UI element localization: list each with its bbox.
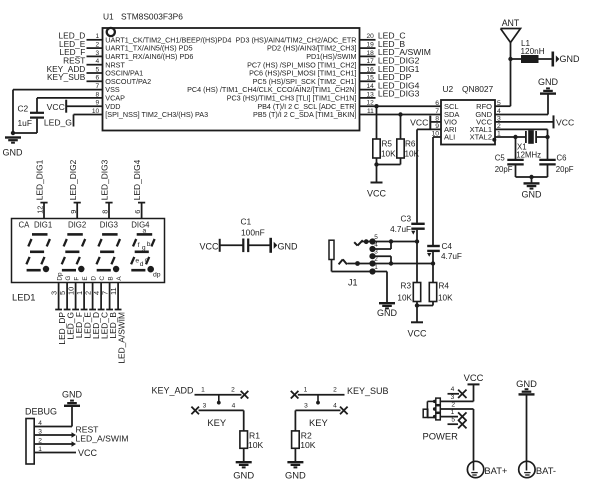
resistor R6 10K pull on SDA xyxy=(397,115,420,159)
svg-text:VCC: VCC xyxy=(407,328,427,338)
connector DEBUG body xyxy=(25,406,57,464)
junction SCL to R5 xyxy=(374,104,378,108)
svg-text:7: 7 xyxy=(435,108,439,115)
LED1 reference designator xyxy=(12,292,35,303)
U1 left pin names (pins 1-10) xyxy=(105,35,231,119)
IC U1 body (STM8S003F3P6, 20-pin) xyxy=(103,28,360,131)
resistor R2 10K xyxy=(292,431,316,450)
svg-text:D: D xyxy=(91,276,98,281)
display LED1 body xyxy=(12,219,165,283)
svg-text:4: 4 xyxy=(451,386,455,393)
svg-text:10K: 10K xyxy=(300,440,316,450)
net label KEY_SUB with wire stub to U1 pin 6 xyxy=(47,72,102,82)
capacitor C5 20pF xyxy=(495,137,524,177)
svg-text:B: B xyxy=(108,276,115,280)
svg-text:4.7uF: 4.7uF xyxy=(441,252,462,261)
connector POWER body xyxy=(423,398,440,420)
svg-text:LED_DIG3: LED_DIG3 xyxy=(378,89,420,99)
LED1 bottom pin 7 stub with net label LED_B xyxy=(101,283,118,339)
junction at VSS ground node xyxy=(11,131,15,135)
svg-text:CA: CA xyxy=(19,220,31,229)
svg-text:G: G xyxy=(65,276,72,281)
resistor R1 10K xyxy=(240,431,264,450)
svg-text:F: F xyxy=(74,277,81,281)
LED1 digit 1 seven-segment glyph xyxy=(26,234,50,272)
wire U2 pin10 ALI to C4 xyxy=(433,137,441,245)
svg-text:GND: GND xyxy=(278,241,299,251)
LED1 digit 3 seven-segment glyph xyxy=(97,234,121,272)
ground symbol GND above BAT- xyxy=(516,378,537,394)
J1 sleeve switch lever xyxy=(339,259,347,264)
J1 tip switch lever xyxy=(354,239,368,245)
svg-text:QN8027: QN8027 xyxy=(462,84,494,94)
svg-text:10K: 10K xyxy=(397,294,412,303)
LED1 bottom pin 10 stub with net label LED_F xyxy=(67,283,84,339)
svg-text:2: 2 xyxy=(333,387,337,394)
svg-text:DIG4: DIG4 xyxy=(131,220,150,229)
svg-text:LED_A/SWIM: LED_A/SWIM xyxy=(116,312,126,364)
U2 reference designator and part number xyxy=(443,84,494,94)
ground symbol GND above U2 pin4 xyxy=(538,77,559,94)
svg-text:KEY: KEY xyxy=(309,417,329,428)
svg-text:4: 4 xyxy=(374,242,378,249)
J1 pin numbers 5,4,3,2,1 xyxy=(374,234,378,271)
svg-text:U2: U2 xyxy=(443,84,454,94)
capacitor C3 4.7uF (ARI coupling) xyxy=(390,215,425,242)
svg-text:VCC: VCC xyxy=(556,118,574,128)
GND power port right of L1 xyxy=(553,52,580,67)
DEBUG pin numbers 4,3,2,1 xyxy=(38,420,42,453)
svg-text:U1: U1 xyxy=(103,12,114,22)
LED1 top pin 12 stub with net label LED_DIG1 xyxy=(35,159,48,218)
ground symbol GND below R2 xyxy=(285,462,306,480)
svg-text:A: A xyxy=(116,276,123,281)
svg-text:[SPI_NSS] TIM2_CH3/(HS) PA3: [SPI_NSS] TIM2_CH3/(HS) PA3 xyxy=(105,110,208,119)
svg-text:R6: R6 xyxy=(405,140,416,149)
svg-text:12: 12 xyxy=(36,206,45,214)
wire U1 pin10 with net label LED_G xyxy=(44,115,103,128)
terminal BAT+ xyxy=(467,461,508,477)
VCC power port below R3 xyxy=(407,306,427,339)
svg-text:3: 3 xyxy=(203,402,207,409)
net label LED_DIG3 with wire stub to U1 pin 13 xyxy=(360,89,420,99)
VCC power port left of C1 xyxy=(200,239,243,252)
svg-text:C1: C1 xyxy=(241,217,252,227)
svg-text:6: 6 xyxy=(133,210,142,214)
J1 pin contact dots 5,4,3,2,1 xyxy=(369,238,375,274)
LED1 bottom pin 11 stub with net label LED_A/SWIM xyxy=(109,283,126,364)
antenna ANT xyxy=(501,18,521,106)
junction antenna / L1 node xyxy=(508,57,512,61)
svg-text:PB5 (T)/I 2 C_SDA [TIM1_BKIN]: PB5 (T)/I 2 C_SDA [TIM1_BKIN] xyxy=(253,110,356,119)
svg-text:1: 1 xyxy=(201,387,205,394)
svg-text:10K: 10K xyxy=(438,294,453,303)
POWER label xyxy=(423,431,459,442)
junction R5/R6 to VCC xyxy=(374,162,378,166)
svg-text:LED_DIG2: LED_DIG2 xyxy=(68,159,78,200)
svg-text:GND: GND xyxy=(62,389,83,399)
LED1 internal segment letters Dp G F E D C B A xyxy=(57,272,124,281)
wire J1 pin2 to C4 node xyxy=(347,263,433,265)
wire U2 pin4 GND to ground xyxy=(495,94,548,115)
VCC power port at U1 pin9 VDD xyxy=(47,100,103,113)
wire U2 pin2 XTAL1 to crystal right node xyxy=(495,129,548,137)
svg-text:11: 11 xyxy=(109,287,118,295)
ground symbol GND below R1 xyxy=(233,462,254,480)
junction crystal right node xyxy=(545,135,549,139)
junction C4 / J1 pin2 node xyxy=(431,261,435,265)
POWER pin5 stub with no-connect X xyxy=(448,420,467,428)
svg-text:E: E xyxy=(82,276,89,280)
net label LED_F with wire stub to U1 pin 3 xyxy=(59,47,102,57)
net label LED_B with wire stub to U1 pin 19 xyxy=(360,39,406,49)
svg-text:J1: J1 xyxy=(348,277,358,287)
crystal X1 12MHz xyxy=(516,130,548,159)
svg-text:R5: R5 xyxy=(382,140,393,149)
svg-text:C5: C5 xyxy=(495,153,506,162)
junction dot at U2 pin1 XTAL2 xyxy=(492,138,496,142)
svg-text:3: 3 xyxy=(304,402,308,409)
LED1 bottom pin 5 stub with net label LED_G xyxy=(58,283,75,340)
ground symbol GND above DEBUG pin4 xyxy=(62,389,83,405)
POWER pin1 stub with no-connect X xyxy=(440,412,466,420)
net label KEY_ADD with wire stub to U1 pin 5 xyxy=(47,64,103,74)
svg-text:10K: 10K xyxy=(248,440,264,450)
svg-text:BAT+: BAT+ xyxy=(484,465,508,476)
U1 right pin names (pins 20-11) xyxy=(187,35,356,119)
wire J1 pin4 loop to pin5 line xyxy=(373,242,392,250)
svg-text:LED_DIG1: LED_DIG1 xyxy=(35,159,45,200)
svg-text:GND: GND xyxy=(377,308,398,318)
svg-text:BAT-: BAT- xyxy=(536,465,556,476)
svg-text:VCC: VCC xyxy=(410,117,428,127)
svg-text:R3: R3 xyxy=(401,281,412,290)
wire KEY_ADD pin4 to R1 xyxy=(243,410,245,431)
svg-text:GND: GND xyxy=(516,378,537,389)
svg-text:5: 5 xyxy=(451,417,455,424)
svg-text:VCC: VCC xyxy=(464,372,484,383)
svg-text:3: 3 xyxy=(451,394,455,401)
svg-text:1: 1 xyxy=(304,387,308,394)
wire DEBUG pin2 with net label LED_A/SWIM xyxy=(34,434,128,447)
wire U1 pin12 to U2 SCL (I2C SCL net) xyxy=(360,105,442,107)
svg-text:1uF: 1uF xyxy=(18,118,32,128)
svg-text:1: 1 xyxy=(451,409,455,416)
wire C3 node down to R3 xyxy=(416,242,418,283)
svg-text:d: d xyxy=(140,261,144,268)
LED1 top pin 9 stub with net label LED_DIG2 xyxy=(68,159,81,218)
svg-text:ALI: ALI xyxy=(444,133,455,142)
J1 reference designator xyxy=(348,277,358,287)
svg-text:GND: GND xyxy=(522,190,543,200)
KEY_ADD pushbutton actuator xyxy=(217,395,221,405)
capacitor C6 20pF xyxy=(539,137,574,177)
svg-text:100nF: 100nF xyxy=(241,228,265,238)
svg-text:KEY_SUB: KEY_SUB xyxy=(347,386,389,396)
U1 reference designator and part number xyxy=(103,12,183,22)
wire J1 pin5 to C3 node xyxy=(361,241,417,243)
switch S1 KEY (KEY_ADD) top contact xyxy=(195,387,242,395)
svg-text:R4: R4 xyxy=(439,281,450,290)
svg-text:4.7uF: 4.7uF xyxy=(390,225,411,234)
svg-text:4: 4 xyxy=(333,402,337,409)
junction pin4 loop xyxy=(389,239,393,243)
svg-text:LED_DIG4: LED_DIG4 xyxy=(132,159,142,200)
net label LED_D with wire stub to U1 pin 1 xyxy=(59,31,103,41)
resistor R5 10K pull on SCL xyxy=(373,106,396,158)
inductor L1 120nH xyxy=(511,39,553,63)
wire POWER pin2 down to BAT+ xyxy=(473,409,475,461)
svg-text:LED_G: LED_G xyxy=(44,118,72,128)
svg-text:C: C xyxy=(99,276,106,281)
VCC power port above POWER connector xyxy=(464,372,484,384)
VCC power port at U2 pin3 xyxy=(495,115,574,128)
GND power port right of C1 xyxy=(271,238,298,253)
resistor R3 10K bias xyxy=(397,281,420,302)
svg-text:GND: GND xyxy=(285,469,306,480)
LED1 top pin 8 stub with net label LED_DIG3 xyxy=(100,159,113,218)
svg-text:10K: 10K xyxy=(381,150,396,159)
svg-text:1: 1 xyxy=(374,264,378,271)
wire POWER pin3 to VCC xyxy=(440,400,473,402)
LED1 bottom pin 1 stub with net label LED_E xyxy=(75,283,92,339)
wire GND to BAT- xyxy=(526,394,528,461)
KEY label for S2 xyxy=(309,417,329,428)
wire DEBUG pin3 with net label REST xyxy=(34,425,99,438)
svg-text:GND: GND xyxy=(3,148,24,158)
IC U2 body (QN8027) xyxy=(441,100,495,145)
U2 left pin numbers 6-10 xyxy=(431,100,439,138)
net label LED_A/SWIM with wire stub to U1 pin 18 xyxy=(360,47,431,57)
svg-text:2: 2 xyxy=(451,401,455,408)
svg-text:C3: C3 xyxy=(401,215,412,224)
svg-text:2: 2 xyxy=(231,387,235,394)
wire VCC down to POWER pin3 xyxy=(473,384,475,401)
wire DEBUG pin4 to ground xyxy=(34,406,72,426)
capacitor C2 1uF xyxy=(18,104,45,134)
svg-text:C6: C6 xyxy=(557,153,567,162)
LED1 digit 4 segment map glyph with letters a b c d e f g dp xyxy=(131,227,161,278)
LED1 top pin 6 stub with net label LED_DIG4 xyxy=(132,159,145,218)
svg-text:4: 4 xyxy=(232,402,236,409)
junction SDA to R6 xyxy=(398,112,402,116)
terminal BAT- xyxy=(519,461,556,477)
svg-text:POWER: POWER xyxy=(423,431,459,442)
junction pin3 loop xyxy=(389,261,393,265)
wire R1 to ground xyxy=(243,448,245,462)
wire joining C5 and C6 to ground xyxy=(516,177,548,183)
wire KEY_SUB pin3 to R2 xyxy=(294,410,296,431)
svg-text:DIG2: DIG2 xyxy=(68,220,86,229)
svg-text:KEY: KEY xyxy=(207,417,227,428)
svg-text:LED_DIG3: LED_DIG3 xyxy=(100,159,110,200)
wire U1 pin8 VCAP to C2 xyxy=(37,98,103,112)
svg-text:STM8S003F3P6: STM8S003F3P6 xyxy=(121,12,183,22)
svg-text:f: f xyxy=(138,242,140,249)
net label LED_C with wire stub to U1 pin 20 xyxy=(360,31,406,41)
switch S2 KEY (KEY_SUB) bottom contact xyxy=(295,402,340,410)
svg-text:ANT: ANT xyxy=(502,18,520,28)
svg-text:GND: GND xyxy=(560,54,581,64)
wire joining R3 and R4 bottoms xyxy=(417,302,433,306)
svg-text:GND: GND xyxy=(233,469,254,480)
svg-text:20pF: 20pF xyxy=(556,165,574,174)
svg-text:DEBUG: DEBUG xyxy=(25,406,57,416)
wire U2 pin5 RFO to antenna xyxy=(495,105,511,107)
KEY label for S1 xyxy=(207,417,227,428)
ground symbol GND below crystal caps xyxy=(522,183,543,199)
junction C5/C6 ground node xyxy=(529,175,533,179)
svg-text:b: b xyxy=(147,241,151,248)
svg-text:e: e xyxy=(135,258,139,265)
POWER pin4 stub with no-connect X xyxy=(448,390,467,398)
svg-text:dp: dp xyxy=(153,272,161,279)
net label LED_DP with wire stub to U1 pin 15 xyxy=(360,72,412,82)
svg-text:DIG1: DIG1 xyxy=(34,220,52,229)
svg-text:VCC: VCC xyxy=(367,189,387,199)
VCC power port at U2 pin8 VIO xyxy=(410,116,441,129)
svg-text:C4: C4 xyxy=(442,242,453,251)
VCC power port below R5 xyxy=(367,165,387,199)
wire J1 pin1 to ground xyxy=(373,272,388,303)
svg-text:VCC: VCC xyxy=(200,241,220,251)
svg-text:VCC: VCC xyxy=(47,102,65,112)
net label KEY_SUB xyxy=(347,386,389,396)
svg-text:Dp: Dp xyxy=(57,272,64,281)
svg-text:DIG3: DIG3 xyxy=(100,220,118,229)
junction crystal left node xyxy=(513,135,517,139)
junction sleeve contact on pin2 wire xyxy=(355,261,360,266)
net label LED_DIG1 with wire stub to U1 pin 16 xyxy=(360,64,420,74)
wire U2 pin9 ARI to C3 xyxy=(417,129,441,222)
net label LED_E with wire stub to U1 pin 2 xyxy=(59,39,102,49)
U1 left pin numbers 1-10 xyxy=(92,33,100,115)
capacitor C1 100nF xyxy=(241,217,271,253)
wire joining R5 and R6 bottoms xyxy=(377,158,401,165)
POWER pin numbers 4,3,2,1,5 xyxy=(451,386,456,423)
net label LED_DIG4 with wire stub to U1 pin 14 xyxy=(360,80,420,90)
svg-text:20pF: 20pF xyxy=(495,165,513,174)
ground symbol GND below C2 xyxy=(3,138,24,158)
svg-text:LED_A/SWIM: LED_A/SWIM xyxy=(76,434,129,444)
audio jack J1 body xyxy=(329,240,373,271)
wire POWER pin2 to BAT+ xyxy=(440,408,473,410)
wire C4 node down to R4 xyxy=(432,264,434,283)
no-connect X at KEY_SUB pin4 xyxy=(340,407,348,415)
U2 right pin numbers 5-1 xyxy=(497,100,501,138)
U1 right pin numbers 20-11 xyxy=(366,33,374,115)
switch S2 KEY (KEY_SUB) top contact xyxy=(298,387,345,395)
junction C3 / J1 pin5 node xyxy=(415,239,419,243)
junction R3/R4 to VCC xyxy=(415,303,419,307)
svg-text:9: 9 xyxy=(69,210,78,214)
wire J1 pin3 loop to pin2 line xyxy=(373,256,392,263)
U2 left pin names SCL SDA VIO ARI ALI xyxy=(444,102,459,142)
KEY_SUB pushbutton actuator xyxy=(316,395,320,405)
svg-text:5: 5 xyxy=(374,234,378,241)
svg-text:6: 6 xyxy=(435,100,439,107)
LED1 bottom pin 2 stub with net label LED_D xyxy=(84,283,101,340)
capacitor C4 4.7uF (ALI coupling) xyxy=(427,242,462,264)
net label KEY_ADD xyxy=(152,386,195,396)
wire U2 pin1 XTAL2 to crystal left node xyxy=(495,136,516,138)
svg-text:VCC: VCC xyxy=(78,448,98,458)
svg-text:GND: GND xyxy=(538,77,559,87)
svg-text:120nH: 120nH xyxy=(521,47,545,56)
no-connect X at KEY_ADD pin2 xyxy=(241,391,249,399)
resistor R4 10K bias xyxy=(429,281,453,302)
svg-text:KEY_SUB: KEY_SUB xyxy=(47,72,86,82)
U2 right pin names RFO GND VCC XTAL1 XTAL2 xyxy=(470,102,493,142)
LED1 bottom pin 3 stub with net label LED_DP xyxy=(50,283,67,345)
svg-text:C2: C2 xyxy=(18,104,29,114)
LED1 internal labels CA DIG1 DIG2 DIG3 DIG4 xyxy=(19,220,151,229)
svg-text:XTAL2: XTAL2 xyxy=(470,133,492,142)
LED1 digit 2 seven-segment glyph xyxy=(62,234,85,272)
net label REST with wire stub to U1 pin 4 xyxy=(63,56,102,66)
switch S1 KEY (KEY_ADD) bottom contact xyxy=(199,402,244,410)
net label LED_DIG2 with wire stub to U1 pin 17 xyxy=(360,56,420,66)
svg-text:8: 8 xyxy=(101,210,110,214)
wire R2 to ground xyxy=(294,448,296,462)
wire U1 pin7 VSS to ground rail xyxy=(13,90,103,133)
no-connect X at KEY_SUB pin1 xyxy=(291,391,299,399)
no-connect X at KEY_ADD pin3 xyxy=(191,407,199,415)
LED1 bottom pin 4 stub with net label LED_C xyxy=(92,283,109,340)
svg-text:LED1: LED1 xyxy=(12,292,35,303)
wire U1 pin11 to U2 SDA (I2C SDA net) xyxy=(360,114,442,116)
wire DEBUG pin1 with net label VCC xyxy=(34,448,97,458)
svg-text:KEY_ADD: KEY_ADD xyxy=(152,386,195,396)
ground symbol GND below J1 xyxy=(377,303,398,318)
svg-text:12MHz: 12MHz xyxy=(516,150,541,159)
